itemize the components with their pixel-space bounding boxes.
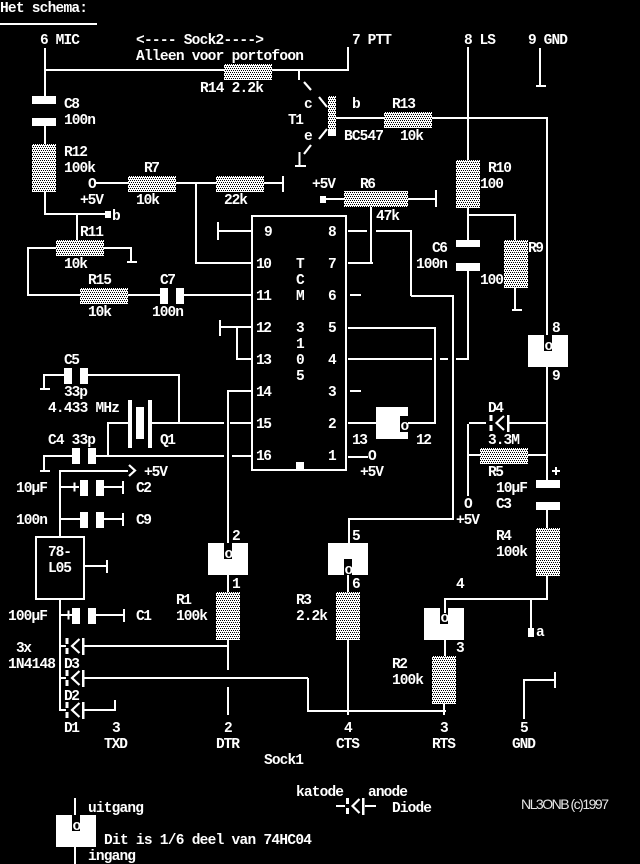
svg-text:R5: R5	[488, 465, 504, 481]
svg-text:Q1: Q1	[160, 433, 176, 449]
wire R11 right	[104, 247, 131, 249]
label TCM 3105 vertical	[296, 257, 305, 385]
resistor R1	[216, 592, 240, 640]
wire C5 corner down to crystal line	[178, 375, 180, 424]
pin 3 stub dash	[350, 390, 361, 392]
svg-text:O: O	[88, 177, 97, 193]
ground symbol Sock1 pin 5	[523, 672, 556, 719]
svg-text:D1: D1	[64, 721, 80, 737]
resistor R15	[80, 288, 128, 304]
wire 78L05 ground pin	[85, 565, 107, 567]
pin 8 net horizontal	[411, 295, 453, 297]
svg-text:6: 6	[352, 577, 361, 593]
node marker square R6 left	[320, 196, 326, 203]
wire R5 right	[528, 454, 548, 456]
svg-text:GND: GND	[512, 737, 536, 753]
svg-text:Diode: Diode	[392, 801, 432, 817]
wire C7 to pin 11	[184, 294, 251, 296]
svg-text:6: 6	[328, 289, 337, 305]
svg-text:4: 4	[456, 577, 465, 593]
regulator U3 78L05 box	[35, 536, 85, 600]
resistor R5	[480, 448, 528, 464]
wire pin 14 down to inverter	[227, 390, 229, 548]
transistor T1 base bar (shaded)	[328, 96, 336, 129]
wire C9 left	[61, 518, 80, 520]
svg-text:Dit is 1/6 deel van 74HC04: Dit is 1/6 deel van 74HC04	[104, 833, 312, 849]
transistor T1 emitter stroke upper	[319, 129, 327, 139]
svg-text:100k: 100k	[64, 161, 96, 177]
pin 14 stub wire	[229, 390, 251, 392]
svg-text:12: 12	[416, 433, 432, 449]
title "Het schema:"	[0, 1, 97, 25]
capacitor C6	[456, 240, 480, 271]
terminator tick C2	[122, 481, 124, 494]
wire 78L05 input down	[59, 598, 61, 710]
svg-text:e: e	[304, 129, 313, 145]
svg-text:3: 3	[456, 641, 465, 657]
svg-text:ingang: ingang	[88, 849, 136, 864]
wire R11 right corner down	[130, 247, 132, 262]
terminator tick C5 left	[40, 388, 50, 390]
svg-text:100n: 100n	[16, 513, 48, 529]
crystal Q1	[128, 400, 152, 448]
wire down to R11	[76, 215, 78, 240]
svg-text:T1: T1	[288, 113, 304, 129]
resistor R14	[224, 64, 272, 80]
pin 8 net long vertical	[452, 295, 454, 520]
svg-text:100: 100	[480, 273, 504, 289]
svg-text:8 LS: 8 LS	[464, 33, 496, 49]
svg-text:R6: R6	[360, 177, 376, 193]
wire R13 right to corner	[432, 117, 548, 119]
svg-text:b: b	[352, 97, 361, 113]
svg-text:L05: L05	[48, 561, 72, 577]
inverter legend box	[56, 815, 96, 847]
wire crystal left drop to C4 line	[107, 422, 109, 457]
svg-text:100n: 100n	[416, 257, 448, 273]
pin 1 stub wire	[348, 456, 368, 458]
svg-text:o: o	[401, 419, 410, 435]
resistor R9	[504, 240, 528, 288]
svg-text:100: 100	[480, 177, 504, 193]
pin 16 stub wire	[232, 455, 251, 457]
pin 4 stub wire	[348, 358, 469, 360]
svg-text:o: o	[225, 547, 234, 563]
wire D3 to R1/DTR	[84, 645, 227, 647]
svg-text:13: 13	[256, 353, 272, 369]
wire +5V rail down	[59, 471, 61, 536]
wire R1 net to DTR	[227, 687, 229, 715]
wire R4 to inverter 4 input	[444, 598, 548, 600]
svg-text:o: o	[545, 339, 554, 355]
svg-text:NL3ONB (c)1997: NL3ONB (c)1997	[521, 796, 609, 812]
label + (C1)	[64, 611, 73, 620]
resistor R13	[384, 112, 432, 128]
svg-text:1: 1	[232, 577, 241, 593]
node marker square a	[528, 628, 534, 637]
svg-text:7: 7	[328, 257, 337, 273]
svg-text:100n: 100n	[64, 113, 96, 129]
wire GND9 end tick	[536, 85, 546, 87]
transistor T1 collector tick on rail	[298, 71, 300, 80]
wire +5V arrow line	[59, 470, 128, 472]
transistor T1 emitter stroke lower	[304, 145, 311, 154]
svg-text:+5V: +5V	[456, 513, 480, 529]
svg-text:100k: 100k	[392, 673, 424, 689]
wire pin 7 up to R6	[370, 207, 372, 264]
svg-text:2: 2	[328, 417, 337, 433]
svg-text:+5V: +5V	[360, 465, 384, 481]
svg-text:16: 16	[256, 449, 272, 465]
terminator tick 78L05 ground	[106, 560, 108, 573]
node marker square b	[105, 211, 111, 218]
pin 12 stub wire	[221, 326, 251, 328]
node b wire from R12	[44, 192, 46, 215]
wire D2 corner down to bottom rail	[307, 678, 309, 712]
svg-text:R3: R3	[296, 593, 312, 609]
pin 15 stub wire	[230, 422, 251, 424]
wire C9 right	[104, 518, 123, 520]
wire D2 to corner	[84, 677, 308, 679]
wire C1 left	[61, 614, 65, 616]
transistor T1 emitter terminator	[295, 152, 306, 167]
svg-text:9: 9	[552, 369, 561, 385]
IC U1 TCM3105 box	[251, 215, 347, 471]
wire R2 bottom	[443, 704, 445, 715]
svg-text:1: 1	[328, 449, 337, 465]
pin 8 stub wire	[348, 230, 412, 232]
pin 13 stub wire	[236, 358, 251, 360]
svg-text:R2: R2	[392, 657, 408, 673]
capacitor C8	[32, 96, 56, 126]
wire top rail row4 from MIC to PTT	[44, 69, 349, 71]
terminator tick after R6	[435, 190, 437, 207]
svg-text:4: 4	[344, 721, 353, 737]
diode D1	[59, 702, 85, 719]
svg-text:9 GND: 9 GND	[528, 33, 568, 49]
svg-text:2: 2	[224, 721, 233, 737]
wire inverter 1 output to R1	[227, 575, 229, 592]
pin 8 net corner down	[410, 231, 412, 296]
svg-text:R4: R4	[496, 529, 512, 545]
wire C2 right	[104, 486, 123, 488]
svg-text:c: c	[304, 97, 313, 113]
svg-text:C8: C8	[64, 97, 80, 113]
svg-text:T: T	[296, 257, 305, 273]
svg-text:<---- Sock2---->: <---- Sock2---->	[136, 33, 264, 49]
wire R7 to R8	[176, 182, 216, 184]
svg-text:anode: anode	[368, 785, 408, 801]
inverter U2E (pins 13/12) box	[376, 407, 410, 439]
svg-text:2: 2	[232, 529, 241, 545]
svg-text:R14 2.2k: R14 2.2k	[200, 81, 264, 97]
wire C4 left corner	[43, 455, 72, 471]
wire R11 left	[28, 247, 56, 249]
terminator tick C1	[123, 609, 125, 622]
wire C5 left corner	[43, 374, 64, 390]
svg-text:DTR: DTR	[216, 737, 240, 753]
terminator tick after R8	[282, 176, 284, 192]
diode D2	[61, 670, 85, 687]
svg-text:C4 33p: C4 33p	[48, 433, 96, 449]
resistor R4	[536, 528, 560, 576]
wire R8 right to terminator	[264, 182, 284, 184]
wire legend inverter bottom	[74, 847, 76, 864]
svg-text:C5: C5	[64, 353, 80, 369]
wire inverter 9 output down	[546, 367, 548, 480]
wire node a drop	[530, 600, 532, 628]
svg-text:a: a	[536, 625, 545, 641]
pin 5 stub wire	[348, 327, 436, 329]
svg-text:0: 0	[296, 353, 305, 369]
svg-text:C: C	[296, 273, 305, 289]
svg-text:C9: C9	[136, 513, 152, 529]
wire pin 5 down to inverter 12	[434, 327, 436, 424]
svg-text:C1: C1	[136, 609, 152, 625]
svg-text:C2: C2	[136, 481, 152, 497]
pin 7 stub wire	[348, 262, 373, 264]
svg-text:15: 15	[256, 417, 272, 433]
svg-text:R11: R11	[80, 225, 104, 241]
wire pin 16 line to crystal/C4	[96, 455, 224, 457]
resistor R10	[456, 160, 480, 208]
diode D4	[469, 415, 548, 432]
svg-text:13: 13	[352, 433, 368, 449]
svg-text:Het schema:: Het schema:	[0, 1, 88, 17]
svg-text:3: 3	[296, 321, 305, 337]
pin 8 net bottom horizontal to inverter 5	[348, 518, 454, 520]
svg-text:3x: 3x	[16, 641, 32, 657]
inverter U2C (pins 4/3) box	[424, 608, 464, 640]
svg-text:+5V: +5V	[80, 193, 104, 209]
capacitor C2	[80, 480, 104, 496]
svg-text:3: 3	[440, 721, 449, 737]
svg-text:+5V: +5V	[312, 177, 336, 193]
wire pin 10 up to R7/R8 junction	[195, 183, 197, 264]
svg-text:R7: R7	[144, 161, 160, 177]
wire T1 base to R13	[336, 117, 384, 119]
wire O to R7	[96, 182, 128, 184]
terminator tick C9	[122, 513, 124, 526]
terminator tick C4 left	[40, 470, 50, 472]
svg-text:R10: R10	[488, 161, 512, 177]
svg-text:C6: C6	[432, 241, 448, 257]
arrowhead +5V	[129, 465, 135, 476]
transistor T1 base bar solid foot	[328, 129, 336, 136]
svg-text:100n: 100n	[152, 305, 184, 321]
wire MIC vertical from pin 6	[44, 48, 46, 96]
svg-text:10: 10	[256, 257, 272, 273]
wire crystal left	[109, 422, 128, 424]
svg-text:8: 8	[552, 321, 561, 337]
transistor T1 collector stroke lower	[319, 97, 327, 107]
svg-text:5: 5	[352, 529, 361, 545]
svg-text:O: O	[464, 497, 473, 513]
svg-text:11: 11	[256, 289, 272, 305]
inverter U2F (pins 8/9) box	[528, 335, 568, 367]
wire R9 top lead	[514, 215, 516, 240]
svg-text:C7: C7	[160, 273, 176, 289]
svg-text:47k: 47k	[376, 209, 400, 225]
svg-text:5: 5	[328, 321, 337, 337]
resistor R8	[216, 176, 264, 192]
wire R15 right to C7	[128, 294, 160, 296]
inverter U2B (pins 5/6) box	[328, 543, 368, 579]
svg-text:+5V: +5V	[144, 465, 168, 481]
resistor R7	[128, 176, 176, 192]
wire branch to R9	[468, 214, 516, 216]
wire C1 right	[96, 614, 124, 616]
svg-text:Alleen voor portofoon: Alleen voor portofoon	[136, 49, 304, 65]
terminator tick R9 bottom	[512, 309, 522, 311]
svg-text:5: 5	[520, 721, 529, 737]
svg-text:10k: 10k	[88, 305, 112, 321]
wire LS below R10 to C6	[467, 208, 469, 240]
pin 9 terminator tick	[217, 222, 219, 240]
wire LS vertical	[467, 47, 469, 160]
svg-text:1: 1	[296, 337, 305, 353]
svg-text:O: O	[368, 449, 377, 465]
svg-text:4.433 MHz: 4.433 MHz	[48, 401, 120, 417]
svg-text:12: 12	[256, 321, 272, 337]
svg-text:Sock1: Sock1	[264, 753, 304, 769]
svg-text:78-: 78-	[48, 545, 72, 561]
svg-text:o: o	[73, 819, 82, 835]
svg-text:5: 5	[296, 369, 305, 385]
svg-text:RTS: RTS	[432, 737, 456, 753]
svg-text:1N4148: 1N4148	[8, 657, 56, 673]
svg-text:R12: R12	[64, 145, 88, 161]
diode D3	[61, 638, 85, 655]
wire D4 left corner down to O +5V	[467, 424, 469, 496]
svg-text:o: o	[441, 611, 450, 627]
svg-text:10k: 10k	[136, 193, 160, 209]
svg-text:CTS: CTS	[336, 737, 360, 753]
svg-text:R15: R15	[88, 273, 112, 289]
svg-text:9: 9	[264, 225, 273, 241]
capacitor C4	[72, 448, 96, 464]
wire inverter 6 output to R3	[347, 575, 349, 592]
wire C2 left	[61, 486, 71, 488]
wire inverter 3 output to R2	[444, 640, 446, 656]
svg-text:b: b	[112, 209, 121, 225]
svg-text:10k: 10k	[64, 257, 88, 273]
wire R9 bottom lead	[514, 288, 516, 309]
resistor R11	[56, 240, 104, 256]
svg-text:22k: 22k	[224, 193, 248, 209]
wire R15 left	[28, 294, 80, 296]
svg-text:33p: 33p	[64, 385, 88, 401]
svg-text:katode: katode	[296, 785, 344, 801]
wire inverter 4 input drop	[444, 599, 446, 613]
wire C8 to R12	[44, 126, 46, 144]
wire corner down to inverter 8	[546, 117, 548, 341]
svg-text:TXD: TXD	[104, 737, 128, 753]
pin 12 terminator tick	[219, 320, 221, 336]
svg-text:3: 3	[328, 385, 337, 401]
wire C6 bottom down	[467, 271, 469, 359]
pin 2 stub wire	[348, 422, 376, 424]
pin 6 stub dash	[350, 294, 361, 296]
wire crystal right to pin 15	[152, 422, 224, 424]
pin 9 stub wire	[218, 230, 251, 232]
wire GND9 vertical stub	[539, 48, 541, 85]
svg-text:8: 8	[328, 225, 337, 241]
capacitor C1	[72, 608, 96, 624]
wire R1 bottom to rail	[227, 640, 229, 670]
svg-text:2.2k: 2.2k	[296, 609, 328, 625]
wire R11/R15 left link vertical	[27, 247, 29, 296]
wire bottom rail D2/CTS/RTS	[308, 710, 446, 712]
svg-text:4: 4	[328, 353, 337, 369]
wire legend inverter top	[74, 798, 76, 821]
capacitor C5	[64, 368, 88, 384]
wire PTT vertical	[347, 47, 349, 71]
legend diode symbol	[336, 798, 376, 815]
capacitor C7	[160, 288, 184, 304]
svg-text:uitgang: uitgang	[88, 801, 144, 817]
svg-text:10µF: 10µF	[496, 481, 528, 497]
resistor R2	[432, 656, 456, 704]
wire pin12 to pin13 strap	[236, 328, 238, 359]
IC bottom marker square	[296, 462, 304, 470]
svg-text:10k: 10k	[400, 129, 424, 145]
svg-text:3: 3	[112, 721, 121, 737]
wire D1 to TXD	[84, 709, 116, 711]
svg-text:100µF: 100µF	[8, 609, 48, 625]
wire node to R6	[326, 198, 345, 200]
transistor T1 collector stroke upper	[304, 82, 311, 90]
pin 8 net drop to inverter 5	[348, 518, 350, 544]
svg-text:BC547: BC547	[344, 129, 384, 145]
wire inverter 12 output	[408, 422, 435, 424]
label + (C3)	[552, 467, 560, 475]
label + (C2)	[70, 483, 79, 492]
svg-text:14: 14	[256, 385, 272, 401]
terminator tick TXD	[114, 700, 116, 711]
svg-text:6 MIC: 6 MIC	[40, 33, 80, 49]
pin 10 stub wire	[196, 262, 251, 264]
svg-text:100k: 100k	[176, 609, 208, 625]
wire R3 bottom to CTS	[347, 640, 349, 715]
svg-text:7 PTT: 7 PTT	[352, 33, 392, 49]
resistor R12	[32, 144, 56, 192]
svg-text:R1: R1	[176, 593, 192, 609]
terminator tick R11 right	[127, 261, 137, 263]
wire C3 to R4	[546, 510, 548, 528]
svg-text:C3: C3	[496, 497, 512, 513]
wire b-node horizontal	[44, 213, 106, 215]
svg-text:M: M	[296, 289, 305, 305]
wire R5 left	[469, 454, 481, 456]
inverter U2A (pins 2/1) box	[208, 543, 248, 575]
svg-text:D4: D4	[488, 401, 504, 417]
svg-text:100k: 100k	[496, 545, 528, 561]
svg-text:3.3M: 3.3M	[488, 433, 520, 449]
wire R6 right to terminator	[408, 198, 435, 200]
capacitor C3	[536, 480, 560, 510]
wire R4 bottom lead	[546, 576, 548, 600]
svg-text:10µF: 10µF	[16, 481, 48, 497]
capacitor C9	[80, 512, 104, 528]
svg-text:R13: R13	[392, 97, 416, 113]
svg-text:R9: R9	[528, 241, 544, 257]
resistor R6	[344, 191, 408, 207]
resistor R3	[336, 592, 360, 640]
wire C5 right	[88, 374, 180, 376]
